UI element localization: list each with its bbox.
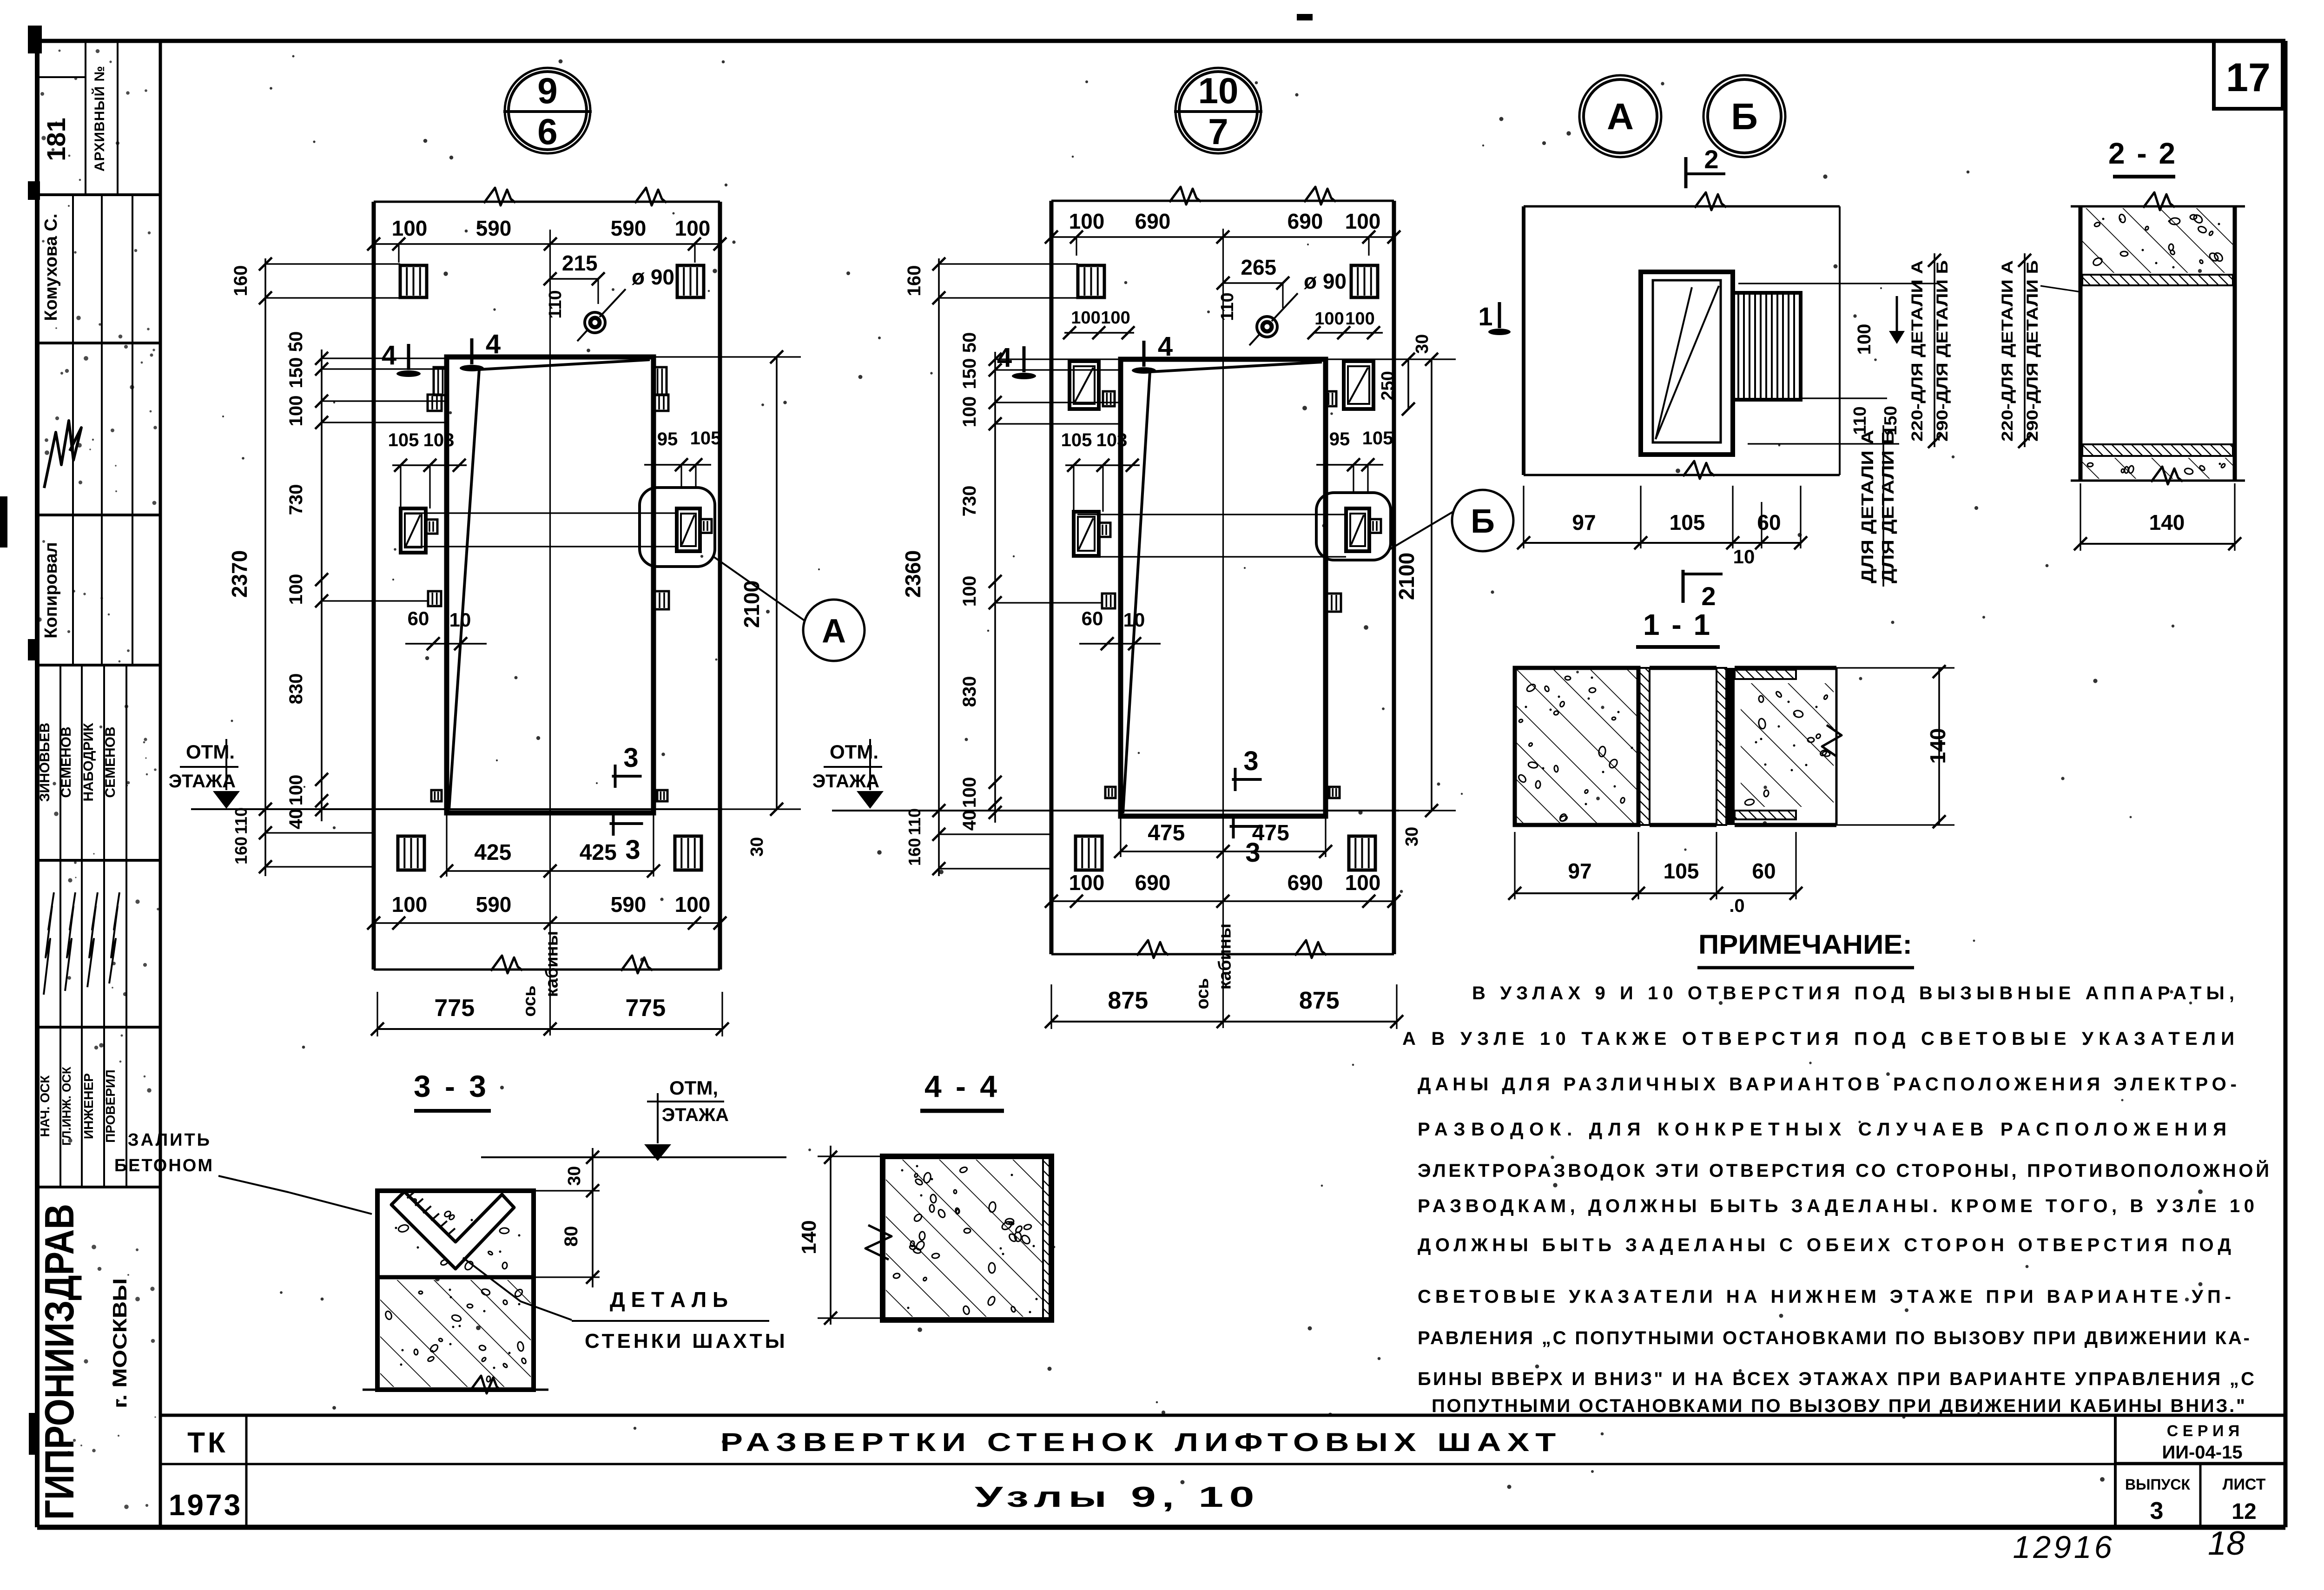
svg-text:60: 60	[1082, 607, 1103, 629]
svg-text:95: 95	[657, 429, 678, 449]
svg-text:97: 97	[1572, 510, 1596, 534]
svg-text:10: 10	[1733, 546, 1755, 567]
svg-text:100: 100	[1071, 308, 1100, 328]
svg-text:103: 103	[423, 430, 455, 450]
svg-text:105: 105	[1362, 428, 1393, 449]
svg-text:590: 590	[611, 216, 647, 240]
svg-text:4: 4	[997, 343, 1012, 373]
svg-text:110: 110	[905, 808, 924, 835]
svg-text:100: 100	[1314, 309, 1344, 329]
svg-text:690: 690	[1287, 209, 1323, 233]
svg-text:НАБОДРИК: НАБОДРИК	[81, 723, 96, 802]
svg-text:50: 50	[959, 332, 980, 353]
svg-text:2: 2	[1701, 581, 1716, 611]
svg-text:425: 425	[580, 840, 617, 865]
svg-text:140: 140	[798, 1220, 820, 1254]
svg-text:3: 3	[625, 835, 640, 865]
svg-text:12: 12	[2232, 1499, 2256, 1524]
svg-text:А: А	[1607, 96, 1634, 137]
svg-text:БЕТОНОМ: БЕТОНОМ	[114, 1156, 214, 1175]
svg-text:ДАНЫ ДЛЯ РАЗЛИЧНЫХ ВАРИАНТО: ДАНЫ ДЛЯ РАЗЛИЧНЫХ ВАРИАНТОВ РАСПОЛОЖЕНИ…	[1418, 1074, 2237, 1095]
svg-text:12916: 12916	[2013, 1530, 2114, 1565]
svg-text:105: 105	[1670, 510, 1705, 534]
svg-text:215: 215	[562, 251, 598, 275]
svg-text:4 - 4: 4 - 4	[924, 1069, 1000, 1103]
svg-text:110: 110	[1218, 292, 1237, 321]
svg-text:95: 95	[1329, 429, 1350, 449]
svg-text:2100: 2100	[1394, 553, 1419, 600]
svg-text:150: 150	[286, 357, 306, 389]
svg-text:ПРОВЕРИЛ: ПРОВЕРИЛ	[103, 1069, 118, 1143]
svg-text:ПОПУТНЫМИ ОСТАНОВКАМИ ПО ВЫЗ: ПОПУТНЫМИ ОСТАНОВКАМИ ПО ВЫЗОВУ ПРИ ДВИЖ…	[1432, 1396, 2245, 1416]
svg-text:690: 690	[1135, 871, 1171, 895]
svg-text:кабины: кабины	[1215, 924, 1235, 990]
svg-text:105: 105	[1664, 859, 1699, 883]
svg-text:100: 100	[392, 892, 428, 917]
svg-text:875: 875	[1108, 987, 1148, 1014]
svg-text:2370: 2370	[227, 550, 251, 598]
svg-text:ОТМ.: ОТМ.	[186, 741, 235, 763]
svg-text:100: 100	[1069, 209, 1105, 233]
svg-text:1 - 1: 1 - 1	[1643, 608, 1712, 641]
svg-text:Д Е Т А Л Ь: Д Е Т А Л Ь	[610, 1287, 728, 1312]
svg-text:100: 100	[959, 396, 980, 428]
svg-text:97: 97	[1568, 859, 1591, 883]
svg-text:100: 100	[959, 777, 980, 808]
svg-text:730: 730	[959, 486, 980, 517]
svg-text:1973: 1973	[169, 1488, 242, 1522]
svg-text:30: 30	[747, 837, 767, 857]
svg-text:80: 80	[561, 1226, 581, 1247]
svg-text:105: 105	[388, 430, 419, 450]
svg-text:265: 265	[1241, 255, 1276, 279]
svg-text:А: А	[822, 613, 846, 650]
svg-text:150: 150	[959, 358, 980, 389]
svg-text:ВЫПУСК: ВЫПУСК	[2125, 1476, 2190, 1493]
svg-text:Копировал: Копировал	[41, 542, 61, 638]
svg-text:590: 590	[476, 216, 512, 240]
svg-text:730: 730	[286, 484, 306, 515]
svg-text:2100: 2100	[739, 581, 764, 628]
svg-text:690: 690	[1287, 871, 1323, 895]
svg-text:18: 18	[2208, 1525, 2245, 1562]
svg-text:830: 830	[286, 673, 306, 705]
svg-text:590: 590	[611, 892, 647, 917]
svg-text:60: 60	[408, 607, 429, 629]
svg-text:110: 110	[546, 290, 565, 318]
svg-text:кабины: кабины	[542, 931, 562, 997]
svg-text:220-ДЛЯ ДЕТАЛИ А: 220-ДЛЯ ДЕТАЛИ А	[1908, 260, 1926, 442]
svg-text:3: 3	[1245, 838, 1260, 868]
svg-text:590: 590	[476, 892, 512, 917]
svg-text:775: 775	[434, 995, 475, 1022]
svg-text:2 - 2: 2 - 2	[2108, 137, 2177, 170]
svg-text:9: 9	[537, 70, 557, 111]
svg-text:475: 475	[1148, 821, 1185, 845]
svg-text:АРХИВНЫЙ №: АРХИВНЫЙ №	[92, 66, 107, 172]
svg-text:4: 4	[1158, 331, 1173, 362]
svg-text:БИНЫ ВВЕРХ И ВНИЗ" И НА: БИНЫ ВВЕРХ И ВНИЗ" И НА ВСЕХ ЭТАЖАХ ПРИ …	[1418, 1369, 2254, 1389]
svg-text:ГИПРОНИИЗДРАВ: ГИПРОНИИЗДРАВ	[36, 1204, 82, 1520]
svg-text:690: 690	[1135, 209, 1171, 233]
svg-text:10: 10	[1123, 609, 1145, 631]
svg-text:.0: .0	[1729, 896, 1744, 916]
svg-text:ø 90: ø 90	[1304, 269, 1347, 293]
svg-text:Б: Б	[1731, 96, 1758, 137]
svg-text:250: 250	[1378, 371, 1398, 400]
svg-text:10: 10	[1198, 70, 1239, 111]
svg-text:160: 160	[904, 265, 924, 297]
svg-text:НАЧ. ОСК: НАЧ. ОСК	[38, 1075, 52, 1137]
svg-text:ЗАЛИТЬ: ЗАЛИТЬ	[128, 1130, 211, 1150]
svg-text:ЗИНОВЬЕВ: ЗИНОВЬЕВ	[37, 723, 53, 802]
svg-text:Б: Б	[1471, 503, 1495, 540]
svg-text:ЛИСТ: ЛИСТ	[2223, 1476, 2266, 1493]
svg-text:СЕМЕНОВ: СЕМЕНОВ	[59, 726, 74, 798]
svg-text:290-ДЛЯ ДЕТАЛИ Б: 290-ДЛЯ ДЕТАЛИ Б	[1934, 260, 1951, 442]
svg-text:100: 100	[286, 396, 306, 427]
svg-text:ИИ-04-15: ИИ-04-15	[2162, 1442, 2242, 1463]
svg-text:РАВЛЕНИЯ „С ПОПУТНЫМИ ОСТАНОВ: РАВЛЕНИЯ „С ПОПУТНЫМИ ОСТАНОВКАМИ ПО ВЫЗ…	[1418, 1328, 2250, 1348]
svg-text:100: 100	[1345, 209, 1381, 233]
svg-text:110: 110	[231, 807, 251, 834]
svg-text:ось: ось	[1193, 978, 1213, 1009]
svg-text:Комухова С.: Комухова С.	[41, 213, 61, 321]
svg-text:220-ДЛЯ ДЕТАЛИ А: 220-ДЛЯ ДЕТАЛИ А	[1999, 260, 2016, 442]
svg-text:100: 100	[392, 216, 428, 240]
svg-text:160: 160	[231, 265, 251, 297]
svg-text:100: 100	[286, 775, 306, 806]
svg-text:3: 3	[623, 743, 638, 773]
svg-text:ЭЛЕКТРОРАЗВОДОК ЭТИ ОТВЕРСТИ: ЭЛЕКТРОРАЗВОДОК ЭТИ ОТВЕРСТИЯ СО СТОРОНЫ…	[1418, 1160, 2269, 1181]
svg-text:10: 10	[449, 609, 471, 631]
svg-text:181: 181	[41, 118, 71, 161]
svg-text:140: 140	[2149, 510, 2185, 534]
svg-text:40: 40	[286, 809, 306, 830]
svg-text:100: 100	[1069, 871, 1105, 895]
svg-text:140: 140	[1926, 728, 1950, 764]
svg-text:830: 830	[959, 676, 980, 707]
svg-text:425: 425	[474, 840, 511, 865]
svg-text:2360: 2360	[901, 550, 925, 598]
svg-text:100: 100	[675, 216, 711, 240]
svg-text:50: 50	[286, 331, 306, 352]
svg-text:100: 100	[675, 892, 711, 917]
svg-text:60: 60	[1757, 510, 1781, 534]
svg-text:40: 40	[959, 810, 980, 831]
svg-text:ИНЖЕНЕР: ИНЖЕНЕР	[81, 1073, 96, 1139]
svg-text:30: 30	[1402, 827, 1422, 846]
svg-text:3 - 3: 3 - 3	[414, 1069, 489, 1103]
svg-text:2: 2	[1704, 145, 1718, 174]
svg-text:7: 7	[1208, 111, 1228, 152]
svg-text:Узлы 9, 10: Узлы 9, 10	[975, 1481, 1260, 1513]
svg-text:100: 100	[1345, 309, 1374, 329]
svg-text:РАЗВОДОК. ДЛЯ КОНКРЕТНЫХ СЛ: РАЗВОДОК. ДЛЯ КОНКРЕТНЫХ СЛУЧАЕВ РАСПОЛО…	[1418, 1119, 2226, 1140]
svg-text:875: 875	[1299, 987, 1340, 1014]
svg-text:СТЕНКИ ШАХТЫ: СТЕНКИ ШАХТЫ	[585, 1330, 788, 1352]
svg-text:ЭТАЖА: ЭТАЖА	[662, 1105, 729, 1125]
svg-text:6: 6	[537, 111, 557, 152]
svg-text:4: 4	[486, 329, 501, 359]
svg-text:1: 1	[1478, 302, 1492, 331]
svg-text:С Е Р И Я: С Е Р И Я	[2167, 1422, 2240, 1440]
svg-text:30: 30	[565, 1166, 584, 1186]
svg-text:ОТМ.: ОТМ.	[830, 741, 878, 763]
svg-text:105: 105	[690, 428, 721, 449]
svg-text:ø 90: ø 90	[632, 265, 674, 289]
svg-text:ДЛЯ ДЕТАЛИ Б: ДЛЯ ДЕТАЛИ Б	[1878, 430, 1897, 583]
svg-text:3: 3	[2150, 1498, 2164, 1524]
svg-text:100: 100	[1854, 324, 1875, 355]
svg-text:ось: ось	[520, 985, 540, 1016]
svg-text:ГЛ.ИНЖ. ОСК: ГЛ.ИНЖ. ОСК	[59, 1067, 73, 1146]
svg-text:160: 160	[231, 837, 251, 864]
svg-text:г. МОСКВЫ: г. МОСКВЫ	[109, 1278, 131, 1408]
svg-text:100: 100	[1345, 871, 1381, 895]
svg-text:160: 160	[905, 838, 924, 866]
svg-text:4: 4	[382, 340, 396, 370]
svg-text:ДЛЯ ДЕТАЛИ А: ДЛЯ ДЕТАЛИ А	[1858, 430, 1877, 583]
svg-text:103: 103	[1096, 430, 1128, 450]
svg-text:ПРИМЕЧАНИЕ:: ПРИМЕЧАНИЕ:	[1698, 930, 1912, 960]
svg-text:17: 17	[2226, 55, 2271, 100]
svg-text:ОТМ,: ОТМ,	[669, 1077, 718, 1099]
svg-text:СЕМЕНОВ: СЕМЕНОВ	[103, 726, 118, 798]
svg-text:60: 60	[1752, 859, 1776, 883]
svg-text:775: 775	[625, 995, 666, 1022]
svg-text:30: 30	[1413, 334, 1432, 354]
svg-text:100: 100	[286, 574, 306, 605]
svg-text:100: 100	[959, 576, 980, 607]
svg-text:ТК: ТК	[187, 1427, 228, 1459]
svg-text:3: 3	[1243, 746, 1258, 776]
svg-text:105: 105	[1061, 430, 1092, 450]
svg-text:РАЗВЕРТКИ СТЕНОК ЛИФТОВЫХ Ш: РАЗВЕРТКИ СТЕНОК ЛИФТОВЫХ ШАХТ	[720, 1427, 1562, 1457]
svg-text:290-ДЛЯ ДЕТАЛИ Б: 290-ДЛЯ ДЕТАЛИ Б	[2024, 260, 2041, 442]
svg-text:100: 100	[1101, 308, 1130, 328]
